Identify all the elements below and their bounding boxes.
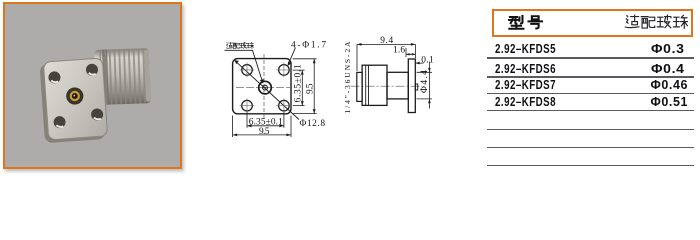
right dim 9.5 extension lines bbox=[293, 59, 317, 114]
svg-text:6.35±0.1: 6.35±0.1 bbox=[294, 64, 304, 102]
svg-text:9.5: 9.5 bbox=[305, 83, 315, 94]
hole bottom-left bbox=[242, 100, 253, 111]
technical drawing svg (front + side views) bbox=[0, 0, 700, 174]
photo panel of 2.92-KFDS connector bbox=[3, 2, 182, 169]
flange holes photo bbox=[48, 63, 104, 128]
dim 0.1 leader bbox=[416, 62, 424, 64]
hole bottom-right bbox=[279, 100, 290, 111]
barrel bbox=[387, 72, 408, 99]
table header CJK: 适配玻珠 (serif) bbox=[625, 15, 687, 28]
svg-text:9.4: 9.4 bbox=[380, 36, 393, 46]
bolt circle diagonal with arrow (phi 12.8) bbox=[234, 60, 299, 119]
leader from label to bead bbox=[225, 50, 263, 81]
flange body photo bbox=[39, 58, 107, 143]
flange outline square 9.5x9.5 bbox=[233, 59, 291, 114]
dim 1.6 line + arrows bbox=[406, 48, 415, 57]
bottom dim 6.35 line + arrows bbox=[247, 125, 284, 127]
table row 3 bbox=[495, 78, 556, 92]
table header CJK: 型号 (bold) bbox=[509, 16, 542, 29]
dimension texts bbox=[249, 36, 434, 137]
svg-text:Φ4.4: Φ4.4 bbox=[420, 70, 430, 93]
hole crosshairs bbox=[240, 62, 292, 113]
threaded barrel of connector photo bbox=[94, 48, 151, 105]
thread relief lines bbox=[366, 65, 369, 105]
bottom dim 9.5 line + arrows bbox=[233, 134, 291, 136]
bottom dim 9.5 extension lines bbox=[233, 116, 291, 138]
right dim 9.5 line + arrows bbox=[313, 59, 315, 114]
right dim 6.35 extension lines bbox=[293, 70, 305, 106]
centerline vertical dashed bbox=[263, 54, 265, 120]
leader 4-phi1.7 to top-right hole bbox=[288, 48, 295, 65]
dim 9.4 line + arrows bbox=[357, 43, 415, 45]
center interface photo bbox=[66, 87, 84, 105]
svg-text:Φ12.8: Φ12.8 bbox=[300, 119, 326, 129]
bead stub bbox=[415, 84, 417, 90]
svg-text:1/4"-36UNS-2A: 1/4"-36UNS-2A bbox=[343, 41, 352, 114]
table row 2 bbox=[495, 62, 556, 76]
svg-text:9.5: 9.5 bbox=[259, 127, 270, 137]
interface sleeve bbox=[357, 72, 362, 101]
small CJK label "shi pei bo zhu" above front view bbox=[226, 42, 253, 48]
dim phi4.4 extension lines bbox=[417, 72, 433, 99]
table row 1 bbox=[495, 42, 556, 56]
hole top-left bbox=[242, 65, 253, 76]
svg-text:0.1: 0.1 bbox=[421, 56, 434, 66]
table row 4 bbox=[495, 95, 556, 109]
svg-text:4-Φ1.7: 4-Φ1.7 bbox=[291, 41, 326, 51]
dim 9.4 extension lines bbox=[357, 44, 415, 71]
hole top-right bbox=[279, 65, 290, 76]
centerline horizontal bbox=[236, 86, 292, 88]
table header orange box bbox=[492, 9, 693, 37]
bottom dim 6.35 extension lines bbox=[247, 112, 284, 128]
flange plate side bbox=[408, 59, 415, 113]
table row separator lines bbox=[487, 57, 694, 59]
center glass bead circles bbox=[259, 81, 272, 94]
svg-text:1.6: 1.6 bbox=[393, 46, 405, 56]
coupling nut body bbox=[362, 65, 387, 105]
centerline bbox=[351, 85, 423, 87]
right dim 6.35 line + arrows bbox=[301, 70, 303, 106]
dim phi4.4 line + outside arrows bbox=[428, 62, 430, 109]
